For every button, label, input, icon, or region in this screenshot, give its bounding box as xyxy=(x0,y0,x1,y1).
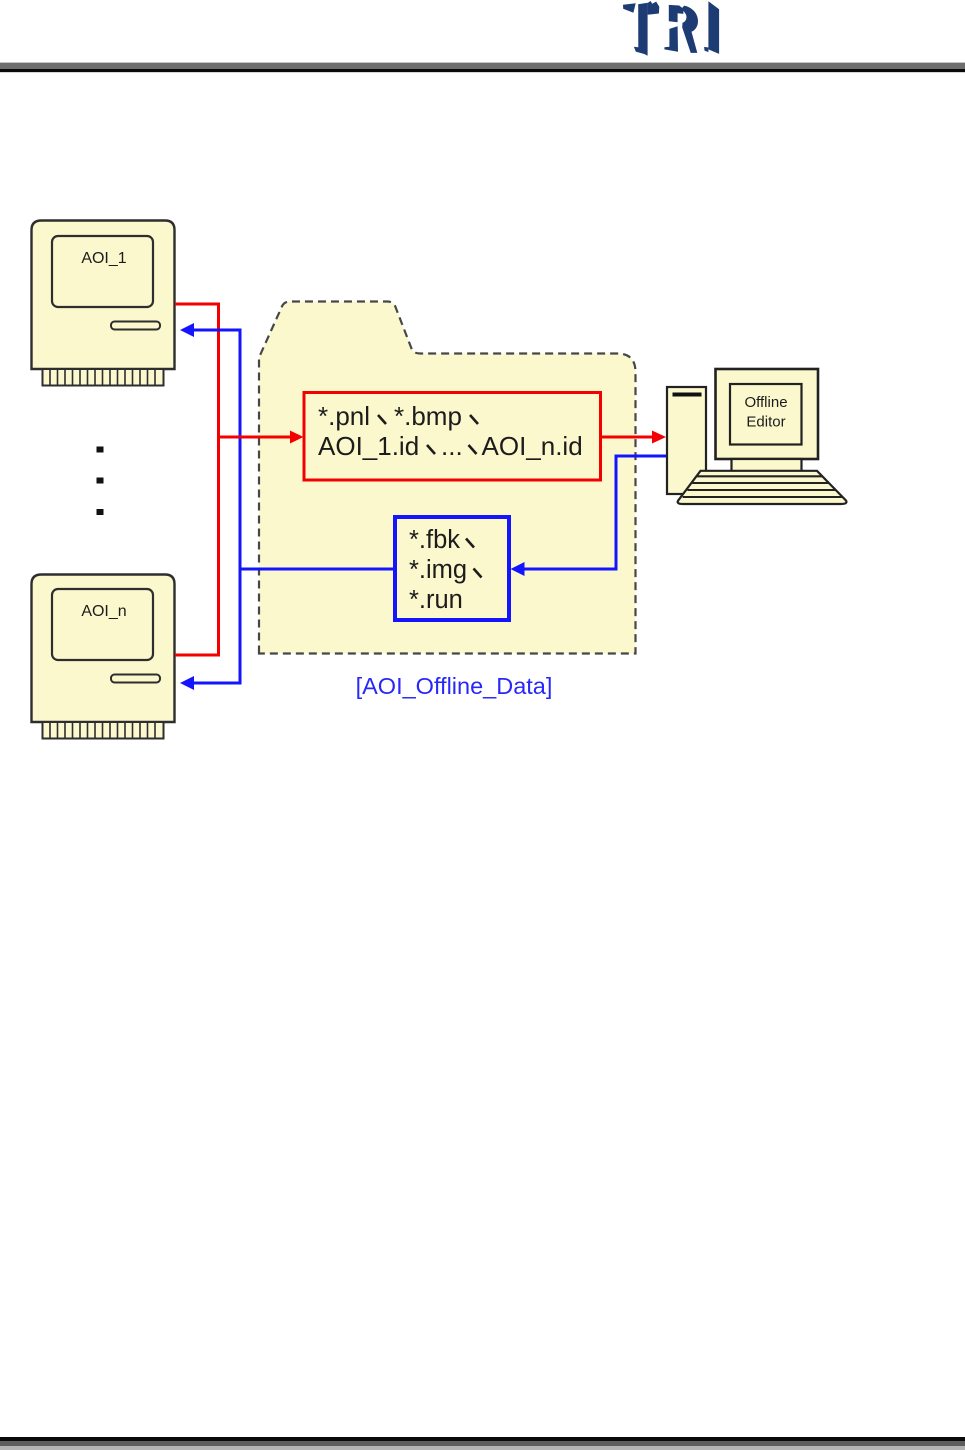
ellipsis dots xyxy=(97,447,104,516)
svg-text:*.fbk: *.fbk xyxy=(409,526,460,554)
PC Offline Editor xyxy=(667,369,846,504)
monitor xyxy=(716,369,819,459)
header rule xyxy=(0,62,965,63)
wire red from red box to PC xyxy=(601,431,667,444)
wire blue from PC down to blue box xyxy=(511,456,667,576)
svg-text:...: ... xyxy=(441,431,463,461)
computer AOI_n xyxy=(32,575,175,739)
svg-text:Editor: Editor xyxy=(746,414,785,431)
svg-text:*.run: *.run xyxy=(409,586,463,614)
svg-text:AOI_1.id: AOI_1.id xyxy=(318,431,419,461)
svg-text:[AOI_Offline_Data]: [AOI_Offline_Data] xyxy=(356,673,553,699)
computer AOI_1 xyxy=(32,221,175,386)
svg-text:AOI_1: AOI_1 xyxy=(81,250,126,267)
svg-text:*.bmp: *.bmp xyxy=(394,401,462,431)
wire red AOI_n to bus xyxy=(175,654,220,657)
wire red bus vertical xyxy=(217,303,220,656)
svg-text:*.img: *.img xyxy=(409,556,467,584)
monitor stand xyxy=(732,459,802,472)
svg-text:AOI_n.id: AOI_n.id xyxy=(482,431,583,461)
tower xyxy=(667,387,706,494)
footer rule xyxy=(0,1437,965,1441)
red box file list xyxy=(304,393,601,481)
svg-text:*.pnl: *.pnl xyxy=(318,401,370,431)
blue box file list xyxy=(395,517,509,620)
folder AOI_Offline_Data xyxy=(259,302,636,654)
keyboard xyxy=(678,471,847,504)
wire red AOI_1 to bus xyxy=(175,303,219,306)
svg-text:Offline: Offline xyxy=(744,394,787,411)
wire blue bus vertical xyxy=(239,330,242,683)
wire blue from blue box to bus xyxy=(240,568,395,571)
wire blue to AOI_1 xyxy=(180,323,242,337)
wire blue to AOI_n xyxy=(180,676,242,690)
TRI logo xyxy=(615,0,725,60)
wire red bus to red box xyxy=(219,431,304,444)
svg-text:AOI_n: AOI_n xyxy=(81,603,126,620)
